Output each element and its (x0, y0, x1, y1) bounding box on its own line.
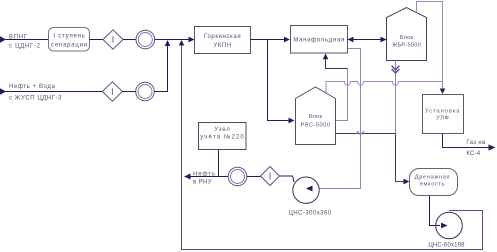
pump ЦНС-60х198 (436, 212, 463, 239)
svg-text:сепарации: сепарации (51, 42, 88, 48)
svg-text:РВС-5000: РВС-5000 (300, 122, 330, 128)
up arrow junction1 (165, 40, 171, 46)
label ВПНГ с ЦДНГ-2 (9, 35, 41, 50)
svg-text:Дренажная: Дренажная (415, 174, 450, 180)
svg-text:емкость: емкость (420, 181, 445, 187)
wire (123, 39, 136, 41)
arrow into дренажная (403, 179, 409, 185)
valve diamond 2 (102, 82, 122, 101)
flow chevron on oil wire (357, 131, 364, 135)
valve diamond 1 (103, 30, 123, 49)
pump ЦНС-300х360 (293, 177, 319, 203)
газ wire out (443, 134, 490, 148)
wire riser to line1 (154, 46, 167, 92)
wire to pump300 suction (280, 176, 294, 182)
arrow into УКПН (189, 37, 195, 43)
svg-text:ВПНГ: ВПНГ (9, 35, 28, 41)
block ЖБР-5000 pentagon (387, 8, 427, 61)
arrow into РВС (289, 118, 295, 124)
label Нефть+Вода (9, 84, 62, 101)
wire (122, 91, 136, 93)
arrow in pump60 (441, 223, 448, 229)
return loop wire (182, 46, 483, 250)
svg-text:Нефть + Вода: Нефть + Вода (9, 84, 55, 90)
arrow Газ на КС-4 (489, 144, 496, 150)
vapor line from РВС roof with hops (326, 82, 443, 93)
wire дренажная to pump60 (430, 196, 441, 226)
svg-text:Узел: Узел (214, 127, 230, 133)
svg-text:учёта №220: учёта №220 (200, 133, 245, 140)
wire РНУ (190, 176, 228, 178)
arrow into Манифольдная right (348, 37, 354, 43)
oil wire Манифольдная to pump (312, 49, 361, 189)
wire (247, 176, 261, 178)
svg-text:КС-4: КС-4 (466, 151, 480, 157)
flow meter M3 (228, 167, 247, 186)
arrow into ЖБР (381, 37, 387, 43)
block Дренажная емкость (410, 169, 458, 196)
block Установка УЛФ (423, 95, 464, 134)
svg-text:Манифольдная: Манифольдная (293, 37, 345, 43)
block Узел учёта №220 (199, 123, 247, 150)
valve diamond 3 (261, 167, 280, 186)
svg-text:I ступень: I ступень (53, 34, 85, 40)
wire УКПН out (251, 39, 285, 41)
arrow into УЛФ top (440, 89, 446, 95)
wire to УКПН (155, 39, 189, 41)
drain wire РВС right (336, 133, 396, 135)
svg-text:с ЖУСП ЦДНГ-3: с ЖУСП ЦДНГ-3 (9, 96, 62, 102)
svg-text:ЖБР-5000: ЖБР-5000 (392, 42, 421, 48)
wire РВС to Манифольдная bottom (upper part) (326, 59, 348, 68)
wire input2 (5, 91, 102, 93)
svg-text:ЦНС-60х198: ЦНС-60х198 (428, 243, 465, 249)
flow meter M1 (136, 30, 155, 49)
svg-text:Блок: Блок (400, 35, 414, 41)
up arrow junction2 (179, 40, 185, 46)
flow meter M2 (136, 82, 155, 101)
svg-text:ЦНС-300х360: ЦНС-300х360 (288, 210, 331, 216)
block Горкинская УКПН (195, 27, 251, 54)
arrow in pump300 (306, 186, 313, 192)
block РВС-5000 pentagon (296, 87, 336, 145)
vapor loop from ЖБР roof (417, 2, 443, 89)
svg-text:Установка: Установка (425, 108, 460, 114)
svg-text:УКПН: УКПН (213, 43, 231, 49)
arrow Нефть в РНУ (184, 174, 191, 180)
arrow into Манифольдная (284, 37, 290, 43)
drain wire to дренажная (396, 134, 404, 182)
svg-text:Горкинская: Горкинская (204, 34, 241, 40)
input arrow ВПНГ (0, 36, 6, 42)
input arrow Нефть+Вода (0, 88, 6, 94)
flow chevrons on drain (392, 66, 400, 73)
bidirectional wire Манифольдная-ЖБР (348, 39, 387, 41)
up arrow into Манифольдная bottom (323, 54, 329, 60)
wire (90, 39, 104, 41)
wire РВС to Манифольдная bottom (lower part) (336, 69, 348, 121)
svg-text:в РНУ: в РНУ (193, 180, 212, 186)
svg-text:УЛФ: УЛФ (436, 116, 449, 122)
label Нефть в РНУ (193, 171, 216, 185)
branch wire to РВС inlet (268, 40, 290, 121)
block I ступень сепарации (49, 28, 90, 52)
svg-text:Газ на: Газ на (466, 140, 486, 146)
drain wire ЖБР bottom (395, 61, 397, 134)
wire узел to РНУ line (218, 150, 220, 177)
svg-text:Блок: Блок (309, 114, 323, 120)
block Манифольдная (291, 26, 348, 54)
wire input1 (5, 39, 49, 41)
label Газ на КС-4 (466, 140, 486, 157)
svg-text:с ЦДНГ-2: с ЦДНГ-2 (9, 44, 41, 50)
